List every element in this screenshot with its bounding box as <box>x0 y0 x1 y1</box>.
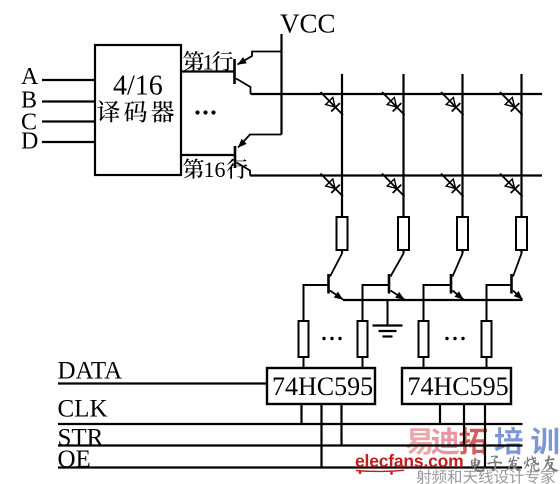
LED D4 row1 <box>500 92 523 115</box>
resistor R3 column <box>457 217 468 250</box>
wire R6 to 595 <box>362 357 364 369</box>
watermark 易迪拓培训 <box>406 427 559 455</box>
input label D <box>21 129 38 155</box>
wire STR <box>58 444 523 446</box>
wire row16 line <box>250 174 542 176</box>
label 第16行 <box>183 157 247 182</box>
resistor R7 base <box>419 321 429 357</box>
label VCC <box>280 9 336 39</box>
label DATA <box>58 357 123 384</box>
wire emitter rail <box>343 299 523 301</box>
input label A <box>21 64 39 90</box>
wire row1 line <box>251 93 543 95</box>
wire U3 OE pin <box>484 404 486 468</box>
wire base Q6 <box>487 285 512 321</box>
LED D1 row1 <box>321 92 344 115</box>
wire U2 CLK pin <box>300 404 302 424</box>
label STR <box>58 425 104 452</box>
resistor R5 base <box>299 321 309 357</box>
transistor Q4 NPN column 2 <box>389 254 405 300</box>
LED D3 row1 <box>441 92 464 115</box>
resistor R2 column <box>398 217 409 250</box>
wire R8 to 595 <box>486 357 488 369</box>
wire base Q5 <box>424 285 452 321</box>
resistor R6 base <box>358 321 368 357</box>
wire U3 CLK pin <box>439 404 441 424</box>
wire R7 to 595 <box>423 357 425 369</box>
wire VCC rail <box>280 34 282 135</box>
wire input B <box>42 100 95 102</box>
LED D2 row1 <box>382 92 405 115</box>
label CLK <box>58 395 108 422</box>
svg-text:DATA: DATA <box>58 357 123 384</box>
wire base Q4 <box>363 285 390 321</box>
svg-text:A: A <box>21 64 39 90</box>
wire column 2 <box>402 74 404 254</box>
transistor Q5 NPN column 3 <box>451 254 464 300</box>
svg-text:OE: OE <box>58 446 91 473</box>
svg-text:16: 16 <box>204 157 226 182</box>
ellipsis cols 1 <box>322 337 341 340</box>
IC U2 label <box>272 372 373 401</box>
wire DATA <box>58 382 267 384</box>
wire CLK <box>58 423 523 425</box>
svg-text:CLK: CLK <box>58 395 108 422</box>
watermark elecfans.com <box>355 451 464 475</box>
wire column 1 <box>341 74 343 254</box>
decoder U1 4/16 box <box>95 45 181 175</box>
svg-text:74HC595: 74HC595 <box>272 372 373 401</box>
wire column 4 <box>520 74 522 254</box>
wire U3 STR pin <box>463 404 465 446</box>
LED D7 row16 <box>441 174 464 197</box>
ellipsis rows <box>195 110 215 114</box>
input label C <box>21 110 37 136</box>
wire base Q3 <box>304 285 329 321</box>
label OE <box>58 446 91 473</box>
IC U3 label <box>408 372 509 401</box>
LED D8 row16 <box>500 174 523 197</box>
ground <box>373 300 403 337</box>
watermark 射频和天线设计专家 <box>417 469 556 483</box>
transistor Q6 NPN column 4 <box>512 254 523 300</box>
svg-text:4/16: 4/16 <box>113 71 163 102</box>
resistor R4 column <box>516 217 527 250</box>
svg-text:VCC: VCC <box>280 9 336 39</box>
decoder U1 label 4/16 <box>113 71 163 102</box>
wire R5 to 595 <box>303 357 305 369</box>
wire input C <box>42 120 95 122</box>
input label B <box>21 88 37 114</box>
transistor Q2 PNP row16 driver <box>235 135 282 176</box>
label 第1行 <box>183 50 233 75</box>
wire input A <box>42 79 95 81</box>
svg-text:74HC595: 74HC595 <box>408 372 509 401</box>
IC U2 74HC595 box <box>267 368 375 404</box>
wire row16 base <box>181 154 235 156</box>
resistor R8 base <box>482 321 492 357</box>
wire U2 STR pin <box>340 404 342 446</box>
wire row1 base <box>181 70 235 72</box>
wire input D <box>42 141 95 143</box>
IC U3 74HC595 box <box>402 368 511 404</box>
transistor Q3 NPN column 1 <box>329 254 344 300</box>
transistor Q1 PNP row1 driver <box>235 52 282 95</box>
decoder U1 label 译码器 <box>97 100 174 122</box>
resistor R1 column <box>337 217 348 250</box>
wire column 3 <box>461 74 463 254</box>
svg-text:elecfans.com: elecfans.com <box>355 451 464 471</box>
watermark 电子发烧友 <box>471 455 559 472</box>
wire OE <box>58 466 522 468</box>
LED D5 row16 <box>321 174 344 197</box>
ellipsis cols 2 <box>445 337 464 340</box>
wire U2 OE pin <box>320 404 322 468</box>
LED D6 row16 <box>382 174 405 197</box>
svg-text:D: D <box>21 129 38 155</box>
